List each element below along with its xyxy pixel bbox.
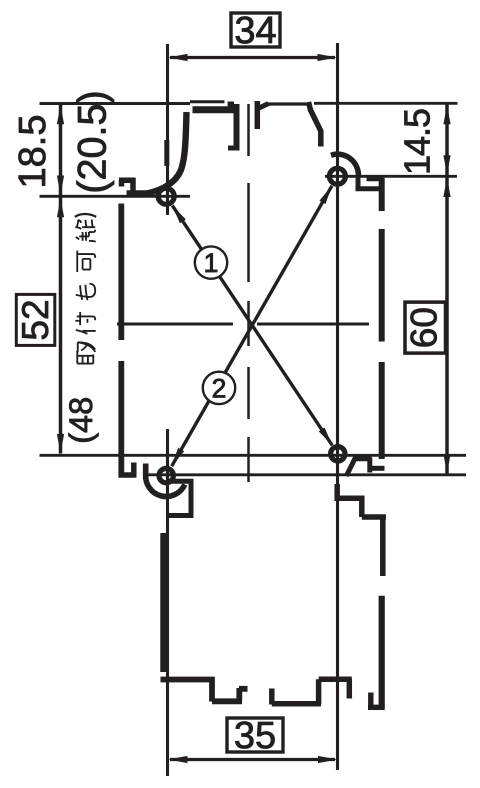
bottom profile left group [161,680,248,702]
bottom right foot [368,693,385,708]
dimension box 34 [231,10,280,52]
glyph 可 [77,251,95,272]
S-curve top-left [127,112,187,193]
glyph 能 [75,219,95,241]
extension line hole row y196 [40,195,191,198]
BL U hook [146,464,185,497]
svg-text:14.5: 14.5 [397,109,438,175]
svg-text:1: 1 [204,248,219,278]
TL upper step [119,178,136,194]
callout circle 1 [195,246,227,278]
top slot right wall V2 [255,101,261,129]
TR step down [356,176,384,191]
BR mounting hole ring [331,447,345,461]
glyph ) [75,214,96,217]
diagonal 1 (TL hole to BR hole) [172,206,332,446]
svg-text:52: 52 [15,299,56,340]
horizontal centerline dashes [117,323,369,326]
top bar right [268,102,308,105]
extension line y474.5 [148,473,466,476]
diagonal V2 to top bar [257,104,269,110]
top slot left wall V1 [234,104,240,148]
svg-text:2: 2 [212,374,227,404]
svg-text:35: 35 [234,715,276,757]
callout circle 2 [203,372,235,404]
right dimension line 14.5 / 60 [443,104,450,474]
BL mounting hole ring [159,468,173,482]
glyph 取 [77,342,95,363]
top profile rib [190,100,225,103]
left dimension line 18.5 / 52 [57,104,64,454]
extension line y455 [40,454,467,457]
svg-text:60: 60 [404,307,445,348]
TR arc [331,154,358,176]
dimension line 34 [168,54,337,61]
svg-text:34: 34 [234,10,276,52]
TL mounting hole ring [158,188,174,204]
dimension box 52 [15,294,56,345]
top right drop [309,102,321,147]
svg-text:(20.5): (20.5) [71,90,115,193]
stub on top of bar [228,102,235,109]
right edge bottom [379,596,385,708]
extension line right hole row y176 [325,175,457,178]
vertical center dashed line [247,104,250,482]
centerline left vertical [166,44,169,776]
BR tab [346,457,371,476]
BR staircase [337,484,386,576]
dimension box 60 [404,302,446,353]
diagonal 2 (BL hole to TR hole) [172,186,332,466]
centerline right vertical [336,43,339,770]
left lower bar [160,533,167,672]
bar above TL hole [164,140,169,166]
bottom profile right group [272,679,352,705]
glyph も [76,284,95,300]
right edge dashes [379,178,385,459]
dimension line 35 [168,756,338,763]
dimension box 35 [227,715,283,757]
CJK label 取付も可能) rotated [75,214,96,364]
V1 foot [228,146,240,151]
svg-text:18.5: 18.5 [12,115,54,189]
extension line top y103 [40,102,458,105]
BL step [119,463,137,476]
glyph 付 [75,312,95,334]
left edge dashes [118,204,124,478]
BR right stub [369,466,385,471]
BL rect piece [169,481,194,516]
svg-text:(48: (48 [63,397,99,444]
top profile main bar [193,106,238,113]
TR mounting hole ring [329,168,345,184]
